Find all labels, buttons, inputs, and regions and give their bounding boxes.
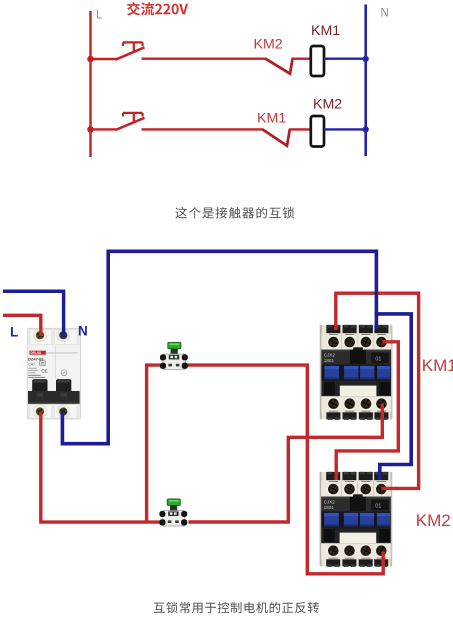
pushbutton actuator row1 (123, 42, 143, 52)
wire KM1 top feed loop to KM2 A1 (red) (336, 293, 419, 488)
wire KM1 A1 to KM2 top clamp (red) (336, 342, 398, 480)
wire row1 to coil (292, 58, 312, 60)
wire button SB1 left leg down to L line (red) (147, 365, 161, 522)
pushbutton SB1 (green) (160, 342, 188, 369)
pushbutton actuator row2 (123, 113, 143, 123)
svg-text:KM2: KM2 (313, 97, 342, 113)
wire blue branch to KM2 coil (375, 314, 412, 480)
wire row2 to coil (289, 128, 311, 130)
contactor KM1 (320, 325, 393, 420)
wire L rail (red vertical) (89, 11, 91, 157)
svg-text:01: 01 (375, 357, 381, 363)
svg-text:1801: 1801 (324, 505, 335, 510)
wire N rail (blue vertical) (364, 5, 367, 157)
svg-text:CJX2: CJX2 (324, 353, 336, 358)
svg-text:KM1: KM1 (422, 356, 453, 375)
svg-text:C€: C€ (41, 369, 48, 375)
wire row2 from L rail (91, 128, 117, 130)
wire button SB1 to KM2 bottom terminal (red) (187, 365, 384, 574)
pushbutton contact SB row1 blade (116, 47, 145, 59)
wire row2 coil to N rail (blue) (324, 128, 366, 130)
svg-text:1801: 1801 (324, 358, 335, 363)
terminal button SB1 right (182, 363, 188, 369)
label caption top schematic (175, 207, 294, 219)
svg-text:01: 01 (375, 504, 381, 510)
wire row2 middle (142, 128, 264, 130)
svg-text:KM2: KM2 (254, 37, 283, 53)
wire row1 middle (142, 58, 267, 60)
wire row1 coil to N rail (blue) (324, 58, 366, 60)
svg-text:KM1: KM1 (257, 111, 286, 127)
terminal button SB2 left (159, 519, 165, 525)
contactor KM2 (320, 472, 393, 567)
svg-text:N: N (381, 8, 389, 20)
node junction on N rail row2 (363, 126, 369, 132)
wire N supply to breaker (blue) (3, 291, 64, 337)
svg-text:KM1: KM1 (311, 23, 340, 39)
svg-text:L: L (96, 10, 103, 22)
terminal button SB1 left (160, 363, 166, 369)
label caption bottom (154, 602, 319, 613)
wire L supply to breaker (red) (3, 315, 41, 336)
svg-text:N: N (78, 324, 88, 339)
wire breaker bottom-left to buttons (red) (41, 412, 162, 522)
svg-text:C40: C40 (28, 362, 34, 366)
coil KM2 row2 (311, 116, 324, 147)
wire row1 from L rail (91, 58, 117, 60)
wire button SB2 to KM1 bottom terminal (red) (189, 404, 383, 523)
breaker QF DZ47-63 (27, 328, 80, 419)
svg-text:L: L (10, 325, 18, 340)
NC contact KM1 row2 (263, 129, 290, 145)
label AC 220V title (127, 2, 188, 15)
terminal button SB2 right (181, 519, 187, 525)
pushbutton SB2 (green) (159, 499, 187, 526)
node junction on L rail row 2 (87, 126, 94, 133)
svg-text:KM2: KM2 (416, 511, 451, 530)
pushbutton contact SB row2 blade (116, 118, 145, 130)
NC contact KM2 row1 (266, 59, 293, 74)
node junction on L rail row 1 (87, 56, 94, 63)
svg-text:DELIXI: DELIXI (30, 351, 41, 355)
node junction on N rail row1 (363, 56, 369, 62)
coil KM1 row1 (311, 46, 324, 76)
wire breaker bottom-right N loop to contactor coils (blue) (62, 251, 376, 443)
svg-text:CJX2: CJX2 (324, 500, 336, 505)
